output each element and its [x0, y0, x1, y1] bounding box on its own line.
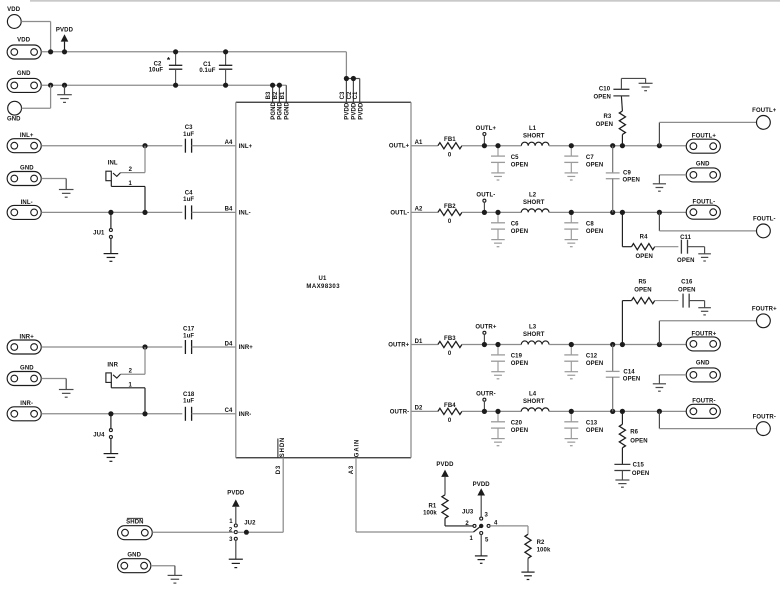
top border strip [30, 0, 780, 2]
connector INR+ 2-pin header [7, 335, 41, 355]
junction [277, 83, 282, 88]
connector FOUTL+ RCA jack [752, 108, 777, 129]
svg-text:PVDD: PVDD [473, 482, 491, 488]
junction [173, 83, 178, 88]
connector GND 2-pin header [7, 165, 41, 185]
pin B1 PGND [280, 85, 291, 120]
capacitor C12 OPEN shunt [564, 345, 603, 379]
svg-text:OUTL+: OUTL+ [389, 144, 410, 150]
pin D3 SHDN [276, 437, 286, 533]
capacitor C4 1uF [183, 191, 194, 220]
wire INR jack tip to INR+ [121, 347, 146, 374]
svg-text:C4: C4 [225, 408, 233, 414]
svg-text:D3: D3 [276, 465, 282, 474]
connector FOUTR+ RCA jack [752, 307, 777, 328]
svg-text:R3: R3 [603, 114, 611, 120]
wire L1 onward [549, 145, 686, 147]
svg-text:SHDN: SHDN [280, 437, 286, 457]
svg-text:VDD: VDD [17, 38, 31, 44]
wire to FOUTR+ RCA jack [659, 321, 756, 345]
svg-text:C15: C15 [633, 463, 645, 469]
capacitor C5 OPEN shunt [491, 146, 528, 180]
wire L2 onward [549, 211, 686, 213]
junction [142, 210, 147, 215]
junction [610, 409, 615, 414]
svg-text:1uF: 1uF [183, 333, 194, 339]
connector VDD 2-pin header [7, 38, 41, 59]
svg-text:FOUTR+: FOUTR+ [752, 307, 777, 313]
capacitor C19 OPEN shunt [491, 345, 528, 379]
svg-text:PGND: PGND [278, 101, 284, 119]
svg-text:PGND: PGND [271, 101, 277, 119]
svg-text:B2: B2 [273, 91, 279, 99]
power flag PVDD [436, 462, 454, 495]
svg-text:FB2: FB2 [444, 204, 456, 210]
capacitor C20 OPEN shunt [491, 411, 528, 445]
svg-text:1: 1 [229, 519, 233, 525]
wire L3 onward [549, 344, 686, 346]
connector VDD banana jack [7, 7, 21, 29]
ferrite bead FB4 0ohm [438, 403, 462, 424]
resistor R3 OPEN [596, 111, 626, 146]
connector FOUTL- RCA jack [753, 217, 776, 238]
svg-text:C2: C2 [347, 91, 353, 99]
svg-text:3: 3 [229, 537, 233, 543]
wire D3 to JU2 [248, 531, 283, 533]
svg-text:L2: L2 [529, 193, 537, 199]
svg-text:2: 2 [129, 369, 133, 375]
svg-text:OPEN: OPEN [677, 258, 694, 264]
svg-text:SHORT: SHORT [523, 200, 545, 206]
pin B2 PGND [273, 85, 284, 120]
svg-text:PVDD: PVDD [436, 462, 454, 468]
svg-text:R5: R5 [638, 279, 646, 285]
wire INR jack sleeve to INR- [111, 382, 145, 413]
wire to FOUTL+ RCA jack [659, 122, 756, 145]
ground [521, 572, 534, 579]
svg-text:100k: 100k [423, 511, 437, 517]
svg-text:SHDN: SHDN [126, 520, 143, 526]
svg-text:C19: C19 [511, 354, 523, 360]
svg-text:C13: C13 [586, 421, 598, 427]
svg-text:10uF: 10uF [149, 68, 164, 74]
junction [344, 76, 349, 81]
wire INL+ to C3 [41, 145, 182, 147]
svg-text:SHORT: SHORT [523, 133, 545, 139]
svg-text:C1: C1 [353, 91, 359, 99]
svg-text:L4: L4 [529, 392, 537, 398]
wire C17 to pin D4 [192, 341, 254, 351]
svg-text:OPEN: OPEN [630, 439, 647, 445]
svg-text:OPEN: OPEN [511, 162, 528, 168]
svg-text:OPEN: OPEN [511, 361, 528, 367]
ground [653, 184, 666, 191]
connector FOUTR- RCA jack [753, 414, 776, 435]
capacitor C1 0.1uF [199, 52, 232, 85]
svg-text:1uF: 1uF [183, 132, 194, 138]
svg-text:OPEN: OPEN [632, 471, 649, 477]
wire GND banana to GND rail [22, 85, 51, 108]
svg-text:OUTR-: OUTR- [476, 392, 496, 398]
svg-text:C9: C9 [623, 171, 631, 177]
capacitor C17 1uF [183, 327, 195, 354]
power flag PVDD [473, 482, 491, 517]
wire PVDD rail [41, 51, 346, 53]
svg-text:PVDD: PVDD [227, 490, 245, 496]
resistor R2 100k [525, 534, 551, 558]
junction [108, 210, 113, 215]
ground [59, 390, 74, 398]
svg-text:A1: A1 [415, 140, 423, 146]
wire C16 to ground [689, 301, 704, 308]
connector GND banana jack [7, 101, 22, 122]
svg-text:C3: C3 [185, 125, 193, 131]
svg-text:OPEN: OPEN [511, 229, 528, 235]
wire GND header to ground [659, 375, 686, 384]
connector FOUTL+ 2-pin header [686, 134, 720, 154]
pin A3 GAIN [349, 439, 360, 532]
wire GND header to ground [659, 175, 686, 184]
junction [495, 143, 500, 148]
wire GND header to ground [41, 179, 66, 190]
svg-text:INR-: INR- [239, 412, 252, 418]
power flag PVDD [56, 27, 74, 52]
junction [223, 83, 228, 88]
wire JU2 pin3 to ground [235, 540, 237, 559]
svg-text:C14: C14 [623, 370, 635, 376]
junction [62, 83, 67, 88]
svg-text:D2: D2 [415, 406, 423, 412]
wire FB4 to L4 [462, 410, 521, 412]
wire C10 to ground [621, 78, 645, 89]
svg-text:PVDD: PVDD [345, 102, 351, 120]
connector INR- 2-pin header [7, 401, 41, 421]
svg-text:OUTL-: OUTL- [390, 210, 409, 216]
jumper JU1 [93, 212, 112, 238]
wire JU4 to ground [110, 439, 112, 454]
svg-text:PVDD: PVDD [56, 27, 74, 33]
inductor L2 SHORT [521, 193, 549, 213]
svg-text:C16: C16 [681, 279, 693, 285]
svg-text:OUTR+: OUTR+ [388, 343, 409, 349]
svg-text:GND: GND [7, 116, 21, 122]
svg-text:A2: A2 [415, 207, 423, 213]
svg-text:PVDD: PVDD [352, 102, 358, 120]
svg-text:OPEN: OPEN [634, 287, 651, 293]
svg-text:1uF: 1uF [183, 399, 194, 405]
svg-text:OPEN: OPEN [623, 376, 640, 382]
junction [657, 342, 662, 347]
junction [657, 143, 662, 148]
ground [615, 480, 629, 487]
resistor R5 OPEN [622, 279, 654, 344]
svg-text:FOUTR+: FOUTR+ [691, 331, 716, 337]
junction [482, 342, 487, 347]
junction [270, 83, 275, 88]
svg-text:OPEN: OPEN [586, 361, 603, 367]
svg-text:R1: R1 [428, 504, 436, 510]
pin C3 PVDD [340, 79, 351, 120]
junction [142, 411, 147, 416]
pin D1 OUTR+ [388, 339, 438, 349]
svg-text:*: * [167, 55, 171, 65]
svg-text:GND: GND [696, 161, 710, 167]
svg-text:C20: C20 [511, 421, 523, 427]
svg-text:U1: U1 [319, 276, 327, 282]
junction [48, 49, 53, 54]
svg-text:B4: B4 [225, 207, 233, 213]
power flag PVDD [227, 490, 245, 524]
svg-text:0: 0 [448, 351, 452, 357]
svg-text:A4: A4 [225, 140, 233, 146]
junction [610, 342, 615, 347]
svg-text:OUTL-: OUTL- [476, 193, 495, 199]
svg-text:INL-: INL- [21, 200, 33, 206]
wire L4 onward [549, 410, 686, 412]
junction [657, 210, 662, 215]
capacitor C15 OPEN [614, 448, 649, 477]
resistor R4 OPEN [622, 212, 654, 259]
svg-text:1: 1 [470, 536, 474, 542]
wire INR- to C18 [41, 413, 182, 415]
wire SHDN header to JU2 pin 2 [152, 531, 234, 533]
svg-text:C7: C7 [586, 155, 594, 161]
ground [698, 254, 711, 261]
wire A3 GAIN to JU3 [356, 531, 474, 533]
svg-text:INL: INL [108, 161, 118, 167]
svg-text:C4: C4 [185, 191, 193, 197]
junction [173, 49, 178, 54]
junction [610, 210, 615, 215]
svg-text:C3: C3 [340, 91, 346, 99]
svg-text:L3: L3 [529, 325, 537, 331]
ferrite bead FB1 0ohm [438, 137, 462, 158]
svg-text:OPEN: OPEN [594, 94, 611, 100]
wire JU3 pin4 to R2 [490, 526, 528, 534]
connector SHDN 2-pin header [118, 518, 153, 539]
svg-text:INR-: INR- [20, 401, 33, 407]
ground [639, 78, 653, 90]
wire C18 to pin C4 [192, 408, 252, 418]
svg-text:OPEN: OPEN [678, 287, 695, 293]
svg-text:GND: GND [20, 165, 34, 171]
junction [495, 409, 500, 414]
capacitor C10 OPEN [594, 87, 630, 112]
svg-text:INL+: INL+ [20, 133, 34, 139]
svg-text:FOUTL-: FOUTL- [693, 200, 716, 206]
junction [482, 143, 487, 148]
capacitor C9 OPEN [606, 146, 640, 213]
pin A1 OUTL+ [389, 140, 438, 150]
svg-text:C5: C5 [511, 155, 519, 161]
wire C3 to pin A4 [192, 140, 253, 150]
svg-text:VDD: VDD [7, 7, 21, 13]
svg-text:R4: R4 [640, 234, 648, 240]
capacitor C6 OPEN shunt [491, 212, 528, 246]
junction [351, 76, 356, 81]
test point OUTR+ [475, 325, 496, 345]
op-amp U1 MAX98303 body [236, 102, 411, 457]
svg-text:SHORT: SHORT [523, 399, 545, 405]
ground [698, 308, 711, 315]
junction [569, 409, 574, 414]
junction [48, 83, 53, 88]
svg-text:0: 0 [448, 418, 452, 424]
svg-text:FOUTL+: FOUTL+ [752, 108, 777, 114]
svg-text:0: 0 [448, 152, 452, 158]
svg-text:B3: B3 [266, 91, 272, 99]
pin D2 OUTR- [390, 406, 438, 416]
svg-text:C18: C18 [183, 392, 195, 398]
svg-text:OPEN: OPEN [586, 162, 603, 168]
connector FOUTR+ 2-pin header [686, 331, 720, 351]
capacitor C16 OPEN [655, 279, 696, 307]
svg-text:JU2: JU2 [244, 521, 256, 527]
wire GND header to ground [151, 566, 175, 576]
junction [495, 210, 500, 215]
capacitor C14 OPEN [606, 345, 640, 412]
wire C11 to ground [688, 247, 705, 254]
ground [59, 190, 74, 198]
svg-text:0: 0 [448, 219, 452, 225]
svg-text:INL+: INL+ [239, 144, 253, 150]
junction [142, 344, 147, 349]
wire VDD banana to PVDD rail [21, 22, 50, 52]
svg-text:C12: C12 [586, 354, 598, 360]
svg-text:MAX98303: MAX98303 [306, 284, 340, 290]
resistor R1 100k [423, 495, 473, 526]
ground [57, 85, 72, 102]
ferrite bead FB2 0ohm [438, 204, 462, 225]
svg-text:C2: C2 [154, 61, 162, 67]
ground [104, 254, 119, 262]
connector GND 2-pin header [686, 161, 720, 182]
svg-text:FOUTL-: FOUTL- [753, 217, 776, 223]
svg-text:OUTR-: OUTR- [390, 409, 410, 415]
connector GND 2-pin header [118, 552, 151, 572]
capacitor C8 OPEN shunt [564, 212, 603, 246]
junction [495, 342, 500, 347]
svg-text:GND: GND [17, 71, 31, 77]
connector GND 2-pin header [686, 361, 720, 382]
resistor R6 OPEN [619, 411, 647, 447]
svg-text:JU1: JU1 [93, 230, 105, 236]
audio jack INL [106, 161, 133, 187]
junction [482, 409, 487, 414]
svg-text:INR+: INR+ [20, 335, 35, 341]
svg-text:SHORT: SHORT [523, 332, 545, 338]
svg-text:OPEN: OPEN [586, 229, 603, 235]
wire FB1 to L1 [462, 145, 521, 147]
svg-text:FOUTR-: FOUTR- [753, 414, 776, 420]
connector INL+ 2-pin header [7, 133, 41, 153]
wire to FOUTL- RCA jack [659, 212, 756, 231]
ground [168, 575, 183, 583]
svg-text:JU4: JU4 [93, 433, 105, 439]
wire JU3 pin5 to ground [480, 535, 482, 556]
svg-text:PVDD: PVDD [358, 102, 364, 120]
junction [610, 143, 615, 148]
svg-text:R6: R6 [630, 430, 638, 436]
svg-text:0.1uF: 0.1uF [199, 68, 215, 74]
junction [620, 342, 625, 347]
svg-text:FB4: FB4 [444, 403, 456, 409]
ground [653, 384, 666, 391]
capacitor C18 1uF [183, 392, 195, 421]
pin C2 PVDD [347, 79, 358, 120]
svg-text:100k: 100k [537, 548, 551, 554]
wire PVDD rail drop to U1 pins [345, 52, 347, 79]
ground [475, 556, 488, 563]
svg-text:INR: INR [107, 362, 118, 368]
svg-text:R2: R2 [537, 540, 545, 546]
svg-text:C10: C10 [599, 87, 611, 93]
capacitor C13 OPEN shunt [564, 411, 603, 445]
svg-text:FOUTL+: FOUTL+ [692, 134, 717, 140]
svg-text:JU3: JU3 [462, 509, 474, 515]
junction [142, 143, 147, 148]
junction [620, 143, 625, 148]
wire INR+ to C17 [41, 346, 182, 348]
svg-text:GND: GND [696, 361, 710, 367]
pin B3 PGND [266, 85, 277, 120]
wire C15 to ground [621, 471, 623, 480]
wire INL jack sleeve to INL- [111, 181, 145, 213]
svg-text:OPEN: OPEN [623, 177, 640, 183]
wire GND rail [41, 84, 286, 86]
inductor L4 SHORT [521, 392, 549, 412]
test point OUTL- [476, 193, 495, 213]
junction [482, 210, 487, 215]
pin A2 OUTL- [390, 207, 438, 217]
junction [657, 409, 662, 414]
wire JU1 to ground [110, 238, 112, 253]
junction [569, 143, 574, 148]
capacitor C7 OPEN shunt [564, 146, 603, 180]
svg-text:B1: B1 [280, 91, 286, 99]
svg-text:GND: GND [127, 552, 141, 558]
wire C4 to pin B4 [192, 207, 251, 217]
ferrite bead FB3 0ohm [438, 336, 462, 357]
junction [569, 210, 574, 215]
svg-text:C6: C6 [511, 222, 519, 228]
ground [104, 454, 119, 462]
svg-text:OPEN: OPEN [596, 122, 613, 128]
wire R2 to ground [527, 558, 529, 572]
svg-text:OPEN: OPEN [635, 254, 652, 260]
jumper JU3 [462, 509, 498, 543]
svg-text:OPEN: OPEN [511, 428, 528, 434]
junction [62, 49, 67, 54]
junction [569, 342, 574, 347]
svg-text:A3: A3 [349, 465, 355, 474]
svg-text:1uF: 1uF [183, 197, 194, 203]
junction [223, 49, 228, 54]
connector FOUTL- 2-pin header [686, 200, 720, 220]
capacitor C11 OPEN [655, 235, 695, 264]
svg-text:FB1: FB1 [444, 137, 456, 143]
svg-text:L1: L1 [529, 126, 537, 132]
wire INL- to C4 [41, 211, 182, 213]
svg-text:D4: D4 [225, 341, 233, 347]
wire FB3 to L3 [462, 344, 521, 346]
svg-text:D1: D1 [415, 339, 423, 345]
connector INL- 2-pin header [7, 200, 41, 220]
audio jack INR [106, 362, 133, 388]
pin C1 PVDD [346, 79, 364, 120]
svg-text:OUTL+: OUTL+ [476, 126, 497, 132]
svg-text:INL-: INL- [239, 211, 251, 217]
